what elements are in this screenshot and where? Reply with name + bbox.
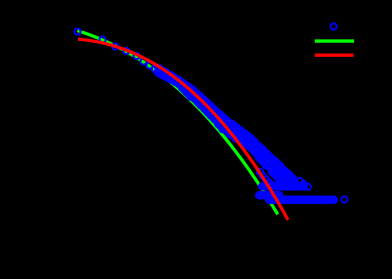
legend marker: blue circle	[330, 23, 336, 29]
data series: blue circles (empirical distribution)	[74, 28, 347, 202]
green fit curve	[77, 31, 277, 215]
legend line: green	[315, 39, 354, 42]
red fit curve	[78, 39, 288, 220]
legend line: red	[315, 54, 354, 57]
